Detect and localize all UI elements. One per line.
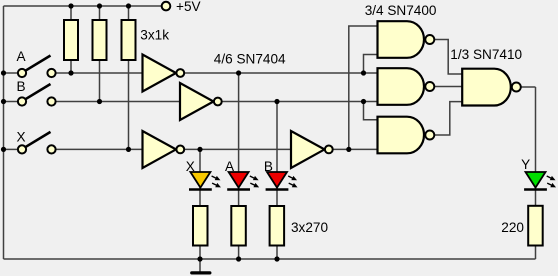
node dot row A NAND1 branch: [361, 70, 366, 75]
wire LED X column: [199, 149, 201, 259]
wire +5V top rail: [4, 5, 162, 7]
wire NAND2 output to U2 input 2: [434, 86, 462, 88]
node dot ground rail X: [197, 256, 202, 261]
wire inverter 4 output row X to NAND3: [333, 148, 378, 150]
wire rail to switch A: [4, 72, 19, 74]
wire LED B column: [276, 102, 278, 260]
NAND gate U3C: [378, 117, 435, 154]
node dot ground rail A: [236, 256, 241, 261]
LED X (yellow): [186, 159, 221, 190]
resistor RX (270): [193, 206, 208, 246]
NAND gate U3A: [378, 21, 435, 58]
wire switch A to inverter 1: [56, 72, 143, 74]
wire U2 output to LED Y column: [521, 86, 536, 88]
wire branch X to NAND1 upper input: [349, 26, 378, 149]
node dot row B NAND3 branch: [361, 99, 366, 104]
NAND gate U3B: [378, 68, 435, 105]
switch A: [17, 49, 56, 77]
node dot left rail X: [1, 147, 6, 152]
wire ground stub: [199, 259, 201, 272]
wire branch B to NAND3 upper input: [364, 102, 378, 120]
wire LED A column: [238, 73, 240, 259]
ground: [192, 271, 210, 274]
wire R2 top stub: [99, 6, 101, 20]
wire inverter 3 output to inverter 4: [184, 148, 291, 150]
inverter U1A: [143, 55, 185, 92]
wire left rail: [3, 6, 5, 259]
wire branch A to NAND1 lower input: [364, 55, 378, 74]
svg-text:3x1k: 3x1k: [140, 27, 169, 42]
LED Y (green): [521, 157, 556, 190]
node dot top rail R3: [126, 3, 131, 8]
switch B: [17, 79, 56, 106]
svg-text:Y: Y: [521, 157, 530, 172]
wire R3 bottom to node X: [128, 60, 130, 149]
node dot top rail R1: [68, 3, 73, 8]
wire rail to switch X: [4, 148, 19, 150]
resistor RY (220): [528, 206, 543, 246]
node dot top rail R2: [97, 3, 102, 8]
wire LED Y column: [535, 87, 537, 259]
resistor R1 (1k): [64, 20, 78, 60]
wire R2 bottom to node B: [99, 60, 101, 102]
node dot R2 row B: [97, 99, 102, 104]
wire inverter 1 output row A: [184, 72, 377, 74]
resistor RA (270): [231, 206, 246, 246]
inverter U1D: [291, 131, 333, 168]
wire inverter 2 output row B: [222, 101, 378, 103]
svg-text:3x270: 3x270: [291, 220, 328, 235]
node dot R1 row A: [68, 70, 73, 75]
node dot row B LED branch: [274, 99, 279, 104]
wire rail to switch B: [4, 101, 19, 103]
node dot left rail B: [1, 99, 6, 104]
svg-text:X: X: [17, 130, 26, 145]
LED A (red): [225, 159, 259, 190]
switch X: [17, 130, 56, 154]
node dot ground rail B: [274, 256, 279, 261]
svg-text:1/3 SN7410: 1/3 SN7410: [450, 47, 522, 62]
svg-text:+5V: +5V: [176, 0, 201, 14]
svg-text:3/4 SN7400: 3/4 SN7400: [365, 3, 437, 18]
node dot left rail A: [1, 70, 6, 75]
LED B (red): [264, 159, 298, 190]
wire ground bottom rail: [4, 258, 536, 260]
node dot R3 row X: [126, 147, 131, 152]
node dot row X NAND1 branch: [346, 147, 351, 152]
terminal +5V: [162, 2, 171, 11]
svg-text:A: A: [17, 49, 27, 64]
svg-text:B: B: [17, 79, 26, 94]
wire R3 top stub: [128, 6, 130, 20]
node dot row X LED branch: [197, 147, 202, 152]
svg-text:220: 220: [501, 220, 524, 235]
inverter U1C: [143, 131, 185, 168]
wire NAND3 output to U2 input 3: [434, 102, 462, 135]
svg-text:4/6 SN7404: 4/6 SN7404: [214, 52, 286, 67]
wire R1 bottom to node A: [70, 60, 72, 73]
wire NAND1 output to U2 input 1: [434, 40, 462, 75]
wire switch B to inverter 2: [56, 101, 181, 103]
NAND gate U2 (3-input): [462, 69, 521, 106]
resistor RB (270): [270, 206, 285, 246]
wire switch X to inverter 3: [56, 148, 143, 150]
wire R1 top stub: [70, 6, 72, 20]
inverter U1B: [180, 83, 222, 120]
node dot row A LED branch: [236, 70, 241, 75]
resistor R3 (1k): [122, 20, 136, 60]
resistor R2 (1k): [93, 20, 107, 60]
